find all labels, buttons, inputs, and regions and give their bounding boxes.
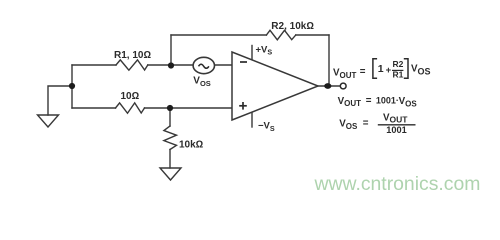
output node junction dot	[324, 83, 331, 89]
resistor 10ohm	[116, 103, 145, 113]
wire feedback top left segment	[171, 34, 266, 36]
wire feedback riser from node A	[170, 35, 172, 65]
svg-text:1001·: 1001·	[376, 96, 399, 106]
wire bottom horizontal (left vertical to 10ohm)	[72, 107, 116, 109]
svg-text:10Ω: 10Ω	[121, 91, 140, 102]
svg-text:1: 1	[378, 63, 384, 75]
wire 10k to ground	[169, 150, 171, 169]
svg-text:VOUT: VOUT	[383, 112, 408, 124]
node B junction dot	[167, 105, 173, 111]
node left junction dot	[69, 83, 75, 89]
svg-text:R2, 10kΩ: R2, 10kΩ	[271, 21, 314, 32]
op-amp U1	[232, 52, 318, 120]
svg-text:R1: R1	[393, 70, 404, 80]
wire ground tap from left node	[48, 86, 72, 115]
op-amp positive supply pin	[251, 46, 253, 61]
resistor R1	[116, 60, 148, 70]
svg-text:VOS: VOS	[339, 119, 358, 131]
equation 3: VOS = VOUT/1001	[339, 112, 415, 135]
svg-text:VOS: VOS	[193, 76, 211, 88]
resistor R2	[266, 30, 295, 40]
wire R1 to node A	[148, 64, 193, 66]
svg-text:R2: R2	[393, 59, 404, 69]
ground bottom	[160, 168, 181, 180]
svg-text:VOS: VOS	[399, 96, 418, 108]
node A junction dot	[168, 62, 174, 68]
op-amp negative supply pin	[251, 112, 253, 127]
wire top-left horizontal (left node to R1)	[72, 64, 116, 66]
svg-text:+: +	[386, 65, 392, 76]
wire 10k riser from node B	[169, 108, 171, 126]
wire left vertical segment	[71, 65, 73, 108]
ground left	[38, 115, 59, 127]
equation 2: VOUT = 1001 VOS	[338, 95, 418, 108]
voltage source VOS	[193, 57, 214, 73]
svg-text:www.cntronics.com: www.cntronics.com	[314, 173, 481, 195]
output terminal open circle	[340, 83, 346, 89]
wire feedback top right segment	[296, 34, 329, 36]
wire 10ohm to op-amp noninverting input	[145, 107, 233, 109]
svg-text:VOS: VOS	[411, 63, 431, 76]
svg-text:=: =	[360, 67, 366, 78]
svg-text:VOUT: VOUT	[338, 96, 362, 108]
equation 1: VOUT = [1 + R2/R1] VOS	[333, 59, 431, 80]
svg-text:−VS: −VS	[258, 121, 275, 133]
wire op-amp output	[318, 85, 340, 87]
svg-text:R1, 10Ω: R1, 10Ω	[114, 50, 151, 61]
svg-text:1001: 1001	[386, 125, 406, 135]
svg-text:VOUT: VOUT	[333, 68, 357, 80]
svg-text:+VS: +VS	[256, 44, 273, 56]
svg-text:=: =	[363, 118, 369, 129]
wire feedback drop to output node	[328, 35, 330, 86]
svg-text:=: =	[366, 95, 372, 106]
resistor R 10k vertical	[164, 126, 177, 150]
svg-text:10kΩ: 10kΩ	[179, 139, 204, 150]
wire VOS source to op-amp inverting input	[215, 64, 233, 66]
